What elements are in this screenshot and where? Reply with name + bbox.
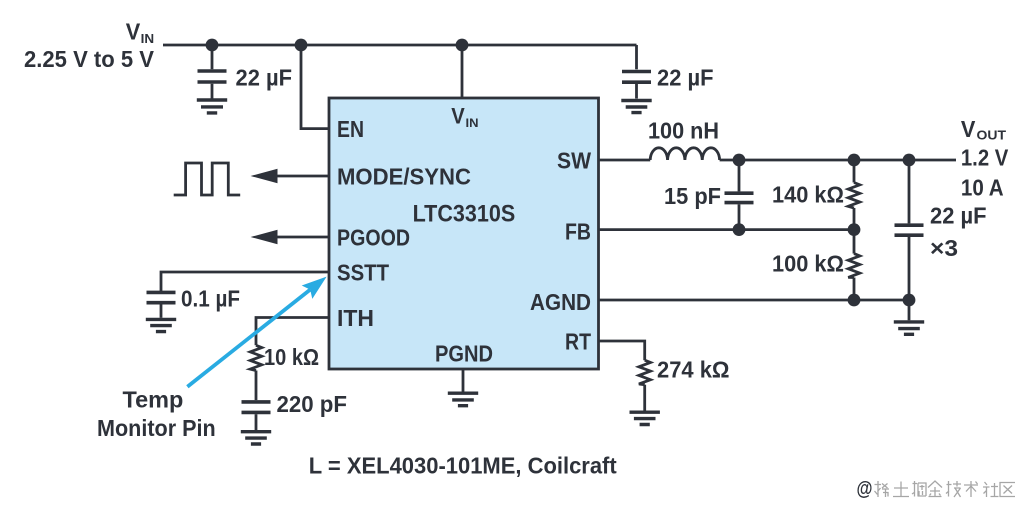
svg-text:Monitor Pin: Monitor Pin (97, 415, 216, 441)
arrowhead PGOOD (251, 230, 278, 245)
capacitor 220pF plates (242, 402, 271, 413)
wire ITH branch (256, 318, 329, 346)
wire arrow shaft PGOOD (276, 236, 329, 239)
capacitor COUT lower lead (908, 237, 911, 300)
capacitor COUT plates (895, 225, 924, 235)
ground AGND net (894, 322, 924, 334)
svg-text:ITH: ITH (337, 305, 374, 331)
svg-text:PGOOD: PGOOD (337, 224, 410, 250)
resistor 100k zigzag (848, 254, 860, 278)
svg-text:22 µF: 22 µF (236, 64, 293, 90)
node dot AGND-100k (848, 294, 861, 307)
svg-text:220 pF: 220 pF (277, 391, 348, 417)
svg-text:Temp: Temp (123, 387, 184, 413)
svg-text:×3: ×3 (930, 235, 958, 261)
svg-text:L = XEL4030-101ME, Coilcraft: L = XEL4030-101ME, Coilcraft (309, 453, 617, 479)
svg-text:@: @ (857, 477, 873, 500)
svg-text:1.2 V: 1.2 V (961, 145, 1009, 171)
capacitor C1 plates (198, 71, 227, 82)
capacitor COUT upper lead (908, 160, 911, 223)
wire EN branch from rail (301, 45, 329, 129)
resistor 140k upper lead (853, 160, 856, 183)
resistor 100k lower lead (853, 278, 856, 301)
wire FB net (599, 228, 855, 231)
inductor L 100nH (650, 148, 719, 160)
svg-text:10 A: 10 A (961, 174, 1004, 200)
wire VIN pin drop (461, 45, 464, 98)
svg-text:IN: IN (466, 116, 479, 130)
node dot FB-140k (848, 223, 861, 236)
node dot SW-COUT (903, 154, 916, 167)
wire rail down to C2 (635, 45, 638, 69)
resistor 140k lower lead (853, 208, 856, 230)
svg-text:LTC3310S: LTC3310S (413, 200, 516, 227)
node dot rail-C1 (206, 39, 219, 52)
svg-text:10 kΩ: 10 kΩ (264, 344, 319, 370)
node dot rail-VIN (456, 39, 469, 52)
svg-text:OUT: OUT (977, 129, 1007, 143)
wire 10k to 220pF (255, 371, 258, 401)
resistor 100k upper lead (853, 230, 856, 254)
svg-text:100 kΩ: 100 kΩ (772, 251, 844, 277)
svg-text:EN: EN (337, 116, 364, 142)
wire AGND net (599, 299, 910, 302)
wire SW to inductor (599, 159, 651, 162)
node dot FB-15pF (733, 223, 746, 236)
capacitor C1 22uF leads (211, 45, 214, 99)
capacitor C2 plates (622, 72, 651, 83)
svg-text:RT: RT (565, 328, 591, 354)
capacitor 15pF upper lead (738, 160, 741, 191)
ground PGND (448, 393, 478, 406)
op-amp U1 LTC3310S body (329, 98, 599, 369)
svg-text:15 pF: 15 pF (664, 183, 721, 209)
wire SSTT branch (161, 272, 329, 291)
resistor 140k zigzag (848, 183, 860, 209)
capacitor 0.1uF lower lead (160, 305, 163, 318)
capacitor 0.1uF plates (147, 292, 176, 302)
wire AGND to ground (908, 300, 911, 320)
resistor 10k zigzag (250, 345, 262, 370)
node dot AGND-COUT (903, 294, 916, 307)
node VIN input rail wire (163, 44, 637, 47)
svg-text:V: V (961, 116, 976, 142)
arrowhead MODE/SYNC (251, 169, 278, 184)
resistor 274k zigzag (639, 360, 651, 385)
svg-text:22 µF: 22 µF (930, 203, 987, 229)
ground below 0.1uF (146, 319, 176, 331)
wire inductor to VOUT (720, 159, 956, 162)
svg-text:22 µF: 22 µF (657, 64, 714, 90)
svg-text:SSTT: SSTT (337, 259, 389, 285)
svg-text:MODE/SYNC: MODE/SYNC (337, 163, 471, 189)
svg-text:SW: SW (557, 147, 591, 173)
node dot SW-15pF (733, 154, 746, 167)
ground below C2 (621, 101, 651, 113)
svg-text:V: V (451, 104, 465, 129)
svg-text:V: V (126, 18, 141, 44)
svg-text:IN: IN (141, 32, 155, 46)
ground below 220pF (241, 432, 271, 444)
watermark CJK glyph strokes (875, 481, 1016, 497)
svg-text:FB: FB (565, 218, 591, 244)
capacitor C2 22uF leads (635, 84, 638, 99)
svg-text:140 kΩ: 140 kΩ (772, 182, 844, 208)
ground below C1 (197, 100, 227, 113)
ground below 274k (630, 412, 660, 424)
svg-text:274 kΩ: 274 kΩ (657, 356, 730, 382)
capacitor 15pF plates (725, 193, 754, 202)
square wave clock symbol (174, 163, 241, 195)
svg-text:2.25 V to 5 V: 2.25 V to 5 V (24, 46, 155, 72)
resistor 274k lower lead (643, 385, 646, 411)
svg-text:100 nH: 100 nH (648, 118, 719, 144)
wire PGND pin to ground (462, 369, 465, 392)
svg-text:PGND: PGND (435, 340, 493, 366)
svg-text:AGND: AGND (530, 289, 591, 315)
capacitor 15pF lower lead (738, 204, 741, 229)
capacitor 220pF lower lead (255, 414, 258, 430)
svg-text:0.1 µF: 0.1 µF (181, 285, 240, 311)
node dot SW-140k (848, 154, 861, 167)
wire arrow shaft MODE/SYNC (276, 175, 329, 178)
node dot rail-EN (295, 39, 308, 52)
annotation arrow temp monitor (cyan) (187, 277, 326, 387)
wire RT branch (599, 341, 645, 360)
